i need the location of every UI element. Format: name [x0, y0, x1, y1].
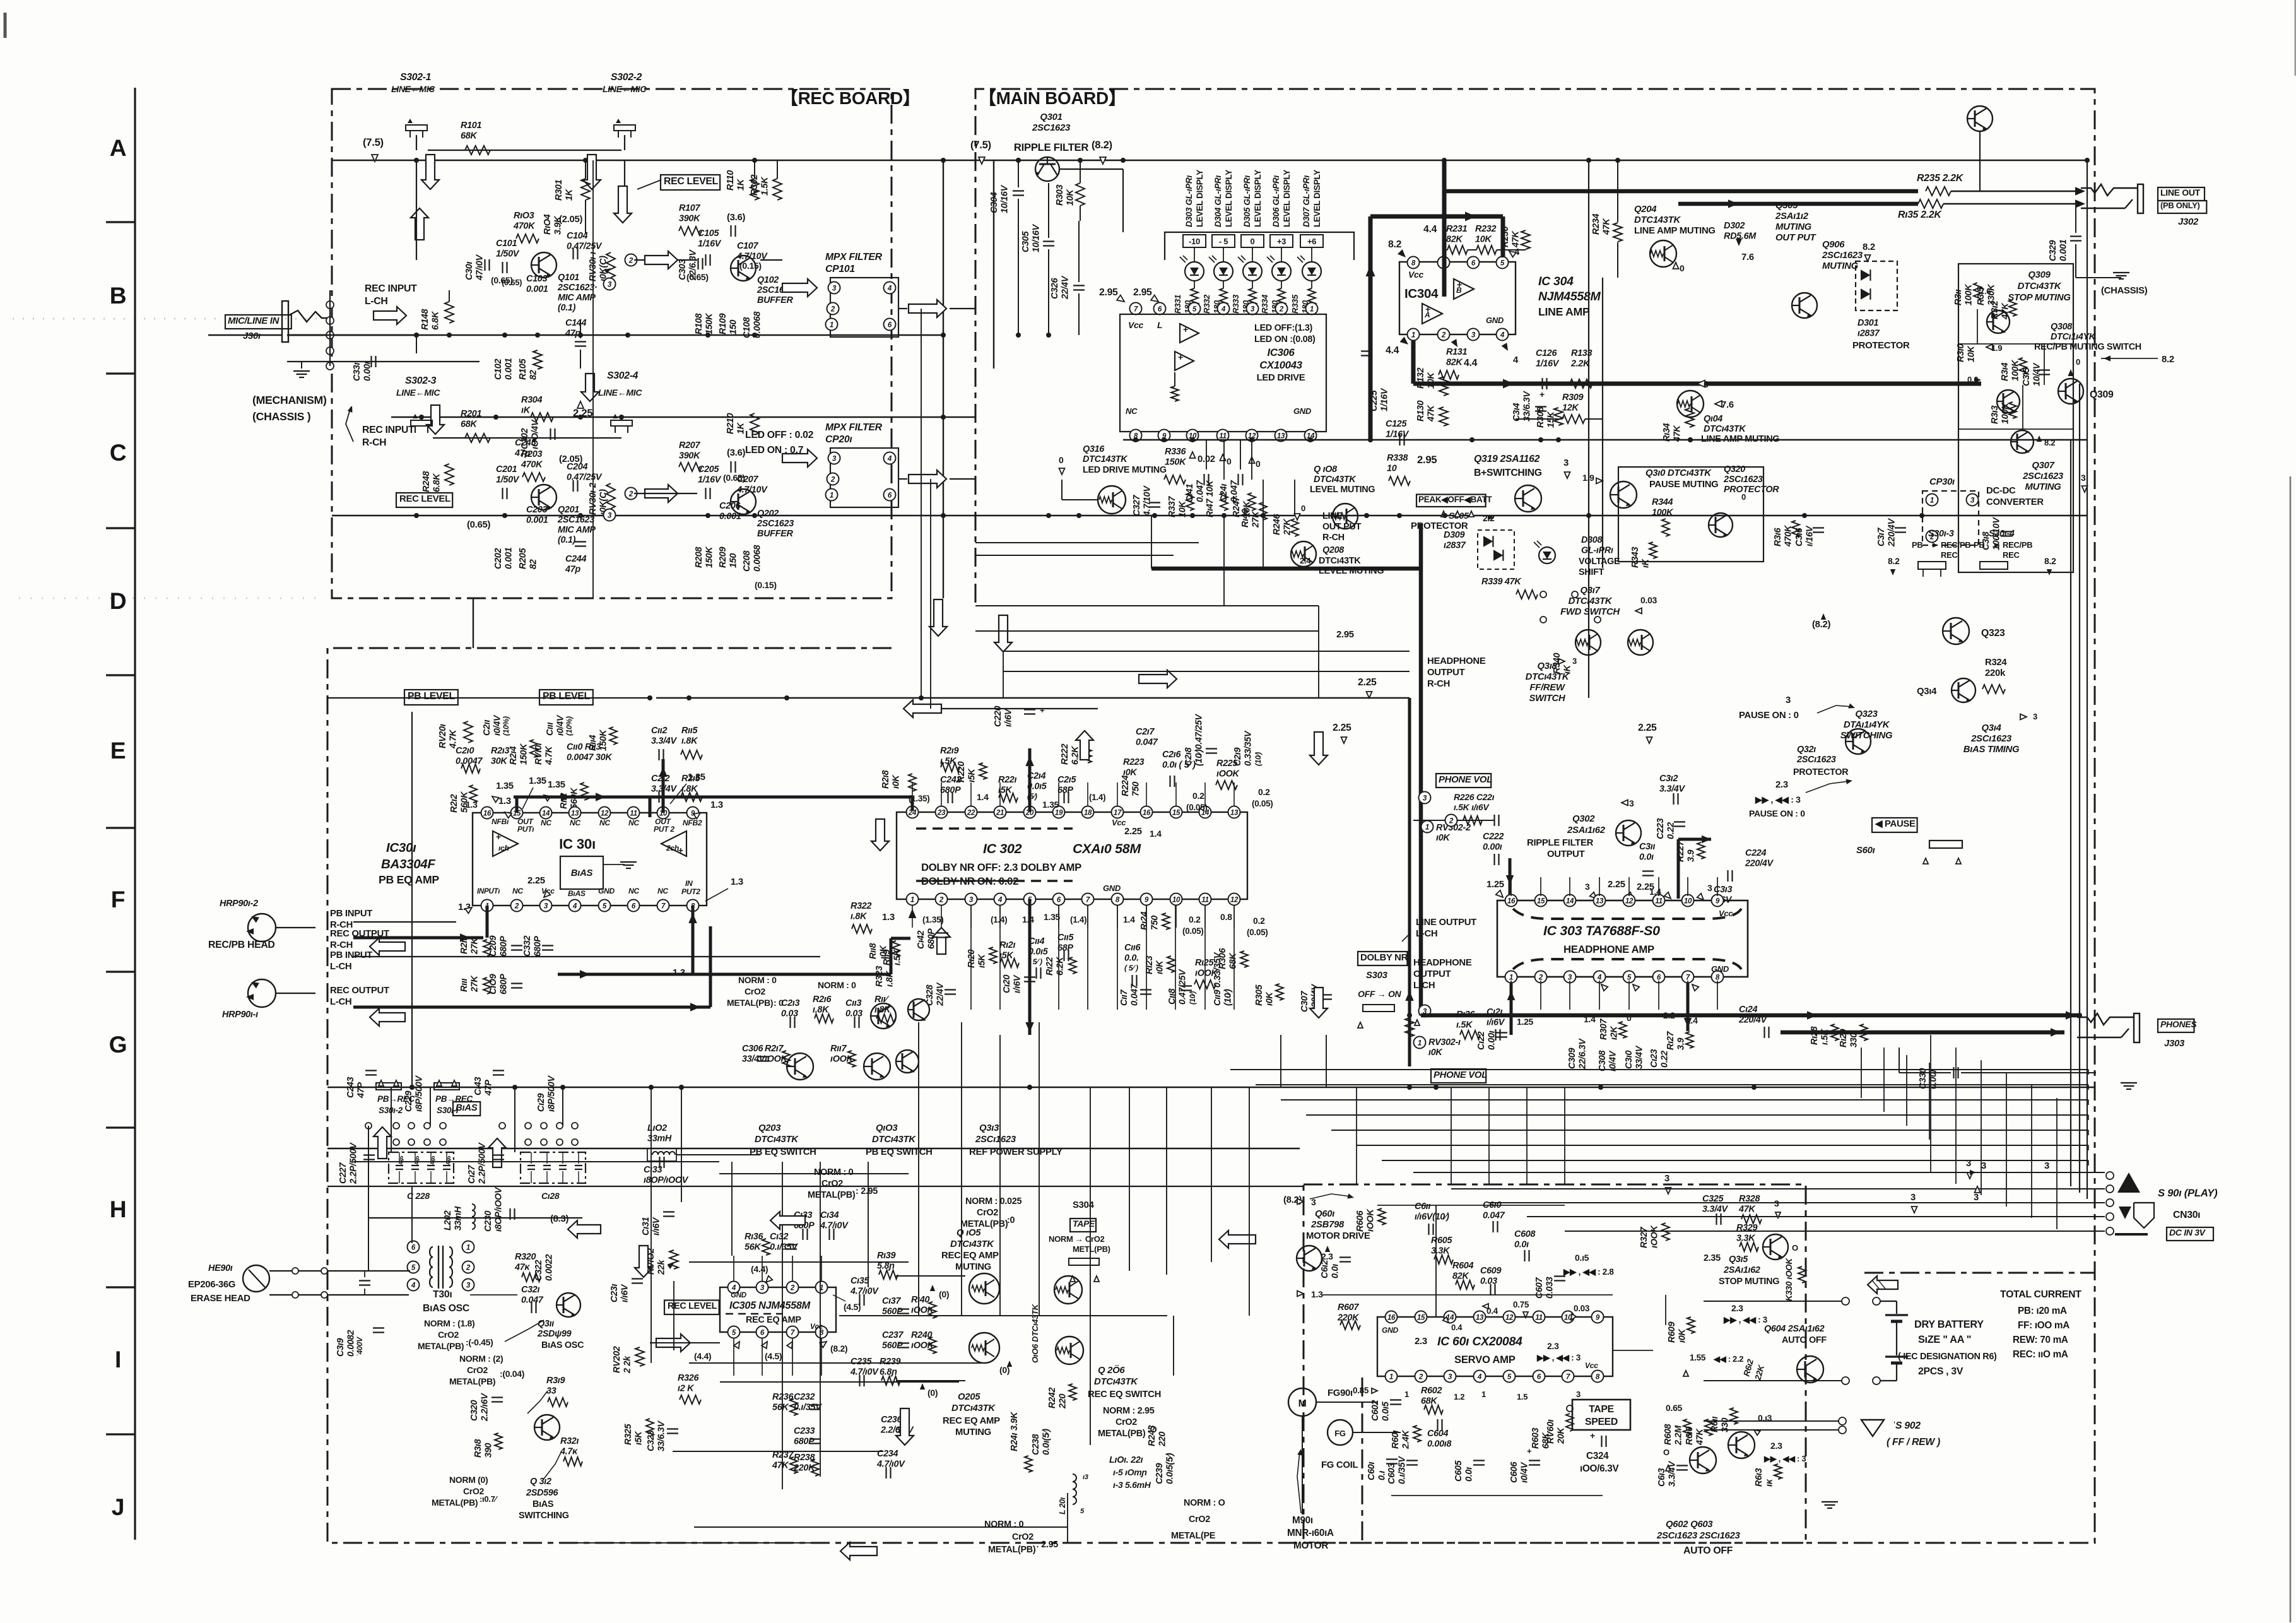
- svg-text:REC/PB: REC/PB: [1941, 540, 1970, 550]
- svg-text:15: 15: [1417, 1314, 1425, 1322]
- svg-text:Cı24: Cı24: [1739, 1005, 1757, 1015]
- svg-text:C234: C234: [877, 1449, 898, 1459]
- svg-text:LINE←MIC: LINE←MIC: [603, 84, 647, 94]
- svg-text:TOTAL CURRENT: TOTAL CURRENT: [2000, 1289, 2081, 1300]
- svg-text:C209: C209: [488, 936, 498, 957]
- block arrow mid rch: [645, 485, 678, 502]
- svg-text:BıAS TIMING: BıAS TIMING: [1963, 745, 2020, 755]
- transistor pb sw a: [787, 1053, 813, 1080]
- pause enclosure: [1618, 467, 1763, 562]
- svg-text:1.55: 1.55: [1690, 1353, 1706, 1362]
- svg-text:Q ıO5: Q ıO5: [957, 1228, 981, 1238]
- svg-text:R222: R222: [1060, 744, 1070, 765]
- svg-text:33/4V: 33/4V: [742, 1054, 766, 1065]
- wire d vert a: [1318, 606, 1319, 698]
- svg-text:0: 0: [1704, 380, 1709, 390]
- svg-text:ı/ı6V: ı/ı6V: [1487, 1018, 1505, 1028]
- svg-text:Rıı8: Rıı8: [868, 943, 878, 959]
- svg-text:NFB2: NFB2: [683, 818, 702, 827]
- svg-text:Q906: Q906: [1822, 240, 1845, 250]
- svg-text:2.25: 2.25: [1608, 880, 1625, 890]
- svg-text:3: 3: [1981, 1161, 1986, 1171]
- pin 7 vcc: [1130, 303, 1142, 315]
- svg-text::(0.04): :(0.04): [500, 1369, 524, 1379]
- svg-text::(-0.45): :(-0.45): [466, 1337, 493, 1347]
- row tick: [106, 1433, 135, 1435]
- svg-text:680P: 680P: [533, 936, 543, 957]
- svg-text:(7.5): (7.5): [363, 136, 384, 148]
- servo ic601 package: [1377, 1317, 1613, 1376]
- svg-text:NORM : 0: NORM : 0: [984, 1520, 1024, 1530]
- wire S302-4 line: [391, 416, 975, 418]
- svg-text:C330: C330: [1918, 1068, 1928, 1089]
- svg-text:6: 6: [411, 1244, 416, 1252]
- wire d vert c: [1003, 651, 1004, 698]
- svg-text:1/50V: 1/50V: [496, 475, 520, 485]
- svg-text:0.0ı5(5⁄): 0.0ı5(5⁄): [1165, 1453, 1175, 1484]
- svg-text:Vcc: Vcc: [810, 1323, 823, 1331]
- svg-text:C107: C107: [737, 241, 758, 251]
- svg-text:BıAS: BıAS: [533, 1499, 554, 1509]
- row tick: [106, 827, 135, 829]
- svg-text:Cı28: Cı28: [541, 1191, 560, 1201]
- svg-text:1/50V: 1/50V: [496, 249, 520, 259]
- thick wire pb in1: [353, 936, 483, 940]
- wire mpx drop 2: [930, 479, 931, 709]
- svg-text:13: 13: [1476, 1314, 1484, 1322]
- svg-text:PROTECTOR: PROTECTOR: [1793, 767, 1849, 777]
- svg-text:(10%): (10%): [565, 716, 574, 736]
- svg-text:2SCı1623: 2SCı1623: [1723, 475, 1763, 485]
- svg-text:2.3: 2.3: [1415, 1337, 1427, 1347]
- svg-text:R308: R308: [1536, 407, 1546, 428]
- block arrow bias up: [374, 1127, 391, 1159]
- svg-text:33/6.3V: 33/6.3V: [657, 1420, 667, 1451]
- svg-text:R320: R320: [515, 1252, 536, 1262]
- svg-text:REC: ııO mA: REC: ııO mA: [2013, 1349, 2068, 1360]
- wire horizontal: [719, 1173, 909, 1174]
- svg-text:R605: R605: [1431, 1236, 1452, 1246]
- svg-text:S60ı: S60ı: [1856, 846, 1875, 856]
- svg-text:D309: D309: [1444, 530, 1464, 540]
- wire d row h2: [975, 630, 1319, 632]
- svg-text:2SCı1623: 2SCı1623: [975, 1135, 1016, 1145]
- svg-text:PB EQ SWITCH: PB EQ SWITCH: [866, 1147, 933, 1157]
- svg-text:CP20ı: CP20ı: [825, 434, 852, 445]
- svg-text:R326: R326: [678, 1373, 699, 1383]
- svg-text:R203: R203: [521, 449, 542, 459]
- svg-text:2.4: 2.4: [1300, 556, 1311, 565]
- svg-text:2SC1623·: 2SC1623·: [557, 283, 597, 293]
- svg-text:Q3ı8: Q3ı8: [1537, 661, 1557, 671]
- svg-text:IC 302: IC 302: [983, 841, 1022, 856]
- wire rv to buffer: [634, 259, 697, 261]
- svg-text:(8.2): (8.2): [1812, 620, 1830, 630]
- page border artifacts: [4, 13, 7, 38]
- svg-text:C202: C202: [493, 548, 503, 569]
- svg-text:CrO2: CrO2: [467, 1365, 488, 1375]
- svg-text:2.2K: 2.2K: [1570, 359, 1591, 369]
- svg-text:(1.35): (1.35): [922, 915, 943, 924]
- wire horizontal: [568, 1542, 820, 1543]
- svg-text:- 5: - 5: [1219, 237, 1228, 246]
- MAIN BOARD outline: [327, 89, 2095, 1543]
- svg-text:C232: C232: [794, 1392, 815, 1402]
- svg-text:1: 1: [1411, 331, 1415, 339]
- svg-text:47P: 47P: [356, 1082, 367, 1099]
- stop muting enclosure: [1958, 264, 2073, 572]
- svg-text:R307: R307: [1599, 1018, 1609, 1040]
- wire d row verticals: [1223, 440, 1225, 480]
- svg-text:47K: 47K: [1695, 1428, 1705, 1446]
- svg-text:Rıı7: Rıı7: [830, 1044, 847, 1054]
- boxed label REC LEVEL 2: [396, 493, 452, 507]
- svg-text:1.5: 1.5: [1517, 1392, 1528, 1402]
- svg-text:11: 11: [1219, 432, 1226, 440]
- svg-text:REC LEVEL: REC LEVEL: [668, 1301, 717, 1311]
- wire horizontal: [673, 1451, 883, 1452]
- svg-text:CXAı0 58M: CXAı0 58M: [1073, 841, 1141, 856]
- svg-text:(8.2): (8.2): [830, 1343, 847, 1354]
- svg-text:BUFFER: BUFFER: [757, 295, 793, 305]
- svg-text:NORM : 0.025: NORM : 0.025: [965, 1196, 1021, 1207]
- svg-text:R2ı8: R2ı8: [881, 770, 891, 789]
- svg-text:R303: R303: [1055, 185, 1065, 206]
- block arrow down recboard 2: [994, 615, 1012, 652]
- svg-text:7: 7: [791, 1329, 795, 1337]
- svg-text:750: 750: [1131, 782, 1141, 796]
- svg-text:HRP90ı-ı: HRP90ı-ı: [222, 1010, 258, 1020]
- svg-text:R3ı8: R3ı8: [473, 1439, 483, 1458]
- svg-text:3: 3: [544, 902, 548, 911]
- svg-text:METAL(PB): METAL(PB): [988, 1545, 1036, 1555]
- svg-text:C327: C327: [1132, 495, 1142, 516]
- wires receq: [839, 1315, 1167, 1316]
- svg-text:D303 GL-ıPRı: D303 GL-ıPRı: [1184, 175, 1194, 227]
- svg-text:(CHASSIS ): (CHASSIS ): [252, 410, 311, 423]
- svg-text:C326: C326: [1050, 278, 1060, 299]
- junction dots: [414, 158, 419, 163]
- svg-text:9: 9: [1596, 1314, 1600, 1322]
- boxed PHONE VOL low: [1431, 1069, 1486, 1083]
- thick wire pb bus: [649, 797, 652, 817]
- svg-text:BA3304F: BA3304F: [381, 857, 435, 871]
- svg-text:22/4V: 22/4V: [1061, 275, 1071, 300]
- svg-text:ı0K(C): ı0K(C): [599, 256, 609, 281]
- svg-text:30K: 30K: [491, 757, 508, 767]
- svg-text:B: B: [110, 282, 127, 309]
- wire vertical: [1090, 1087, 1091, 1445]
- svg-text:0.ı: 0.ı: [1377, 1471, 1387, 1480]
- svg-text:HE90ı: HE90ı: [208, 1263, 233, 1273]
- svg-text:REC: REC: [1941, 550, 1958, 560]
- svg-text:ı0/4V: ı0/4V: [1520, 1461, 1530, 1483]
- svg-text:4: 4: [572, 902, 577, 911]
- svg-text:O205: O205: [958, 1392, 980, 1402]
- svg-text:R207: R207: [679, 440, 700, 451]
- thick wire phones upper: [1421, 1013, 2080, 1018]
- svg-text:C126: C126: [1536, 348, 1557, 358]
- block arrow down top: [583, 155, 601, 189]
- svg-text:EP206-36G: EP206-36G: [188, 1280, 235, 1290]
- svg-text:8.2: 8.2: [2162, 355, 2174, 365]
- svg-text:R325: R325: [623, 1424, 633, 1445]
- block arrow down left ic302: [871, 819, 889, 851]
- svg-text:DOLBY NR OFF: 2.3 DOLBY AM: DOLBY NR OFF: 2.3 DOLBY AMP: [921, 861, 1081, 873]
- svg-text:6: 6: [1657, 974, 1661, 982]
- svg-text:1: 1: [1404, 1390, 1409, 1399]
- svg-text:【REC BOARD】: 【REC BOARD】: [780, 88, 920, 108]
- svg-text:DTCı43TK: DTCı43TK: [1094, 1377, 1138, 1387]
- svg-text:1: 1: [1481, 1390, 1486, 1399]
- svg-text:0.47/25V: 0.47/25V: [567, 242, 603, 252]
- svg-text:LED OFF:(1.3): LED OFF:(1.3): [1254, 323, 1313, 333]
- svg-text:0: 0: [1251, 237, 1255, 246]
- svg-text:CrO2: CrO2: [1116, 1417, 1137, 1427]
- svg-text:2.2P/500V: 2.2P/500V: [478, 1142, 488, 1184]
- svg-text:L-CH: L-CH: [365, 296, 388, 307]
- svg-text:100K: 100K: [1652, 508, 1674, 518]
- svg-text:0.2: 0.2: [1192, 791, 1204, 801]
- svg-text:NC: NC: [570, 818, 580, 827]
- svg-text:NORM : O: NORM : O: [1184, 1498, 1225, 1508]
- svg-text:C233: C233: [794, 1426, 815, 1436]
- block arrow right mid: [645, 251, 678, 269]
- svg-text:C2ı3: C2ı3: [781, 998, 799, 1008]
- svg-text:Q319 2SA1162: Q319 2SA1162: [1474, 454, 1540, 464]
- transistor Q315 STOP MUTING: [1763, 1234, 1788, 1260]
- svg-text:L202: L202: [443, 1210, 453, 1231]
- svg-text:C230: C230: [483, 1211, 493, 1232]
- svg-text:2.2M: 2.2M: [1674, 1425, 1684, 1446]
- svg-text:(PB ONLY): (PB ONLY): [2160, 201, 2200, 210]
- svg-text:C329: C329: [2048, 240, 2058, 261]
- svg-text:15K: 15K: [1546, 411, 1557, 428]
- svg-text:390K: 390K: [679, 214, 701, 224]
- scan streak row B: [13, 318, 325, 320]
- row tick: [106, 372, 135, 374]
- svg-text:D307 GL-ıPRı: D307 GL-ıPRı: [1302, 175, 1311, 227]
- switch S901 PLAY: [2106, 1172, 2114, 1179]
- svg-text:C208: C208: [742, 551, 752, 572]
- boxed PHONE VOL up: [1436, 774, 1491, 788]
- svg-text:+: +: [1183, 324, 1188, 334]
- svg-text:1.3: 1.3: [710, 800, 723, 810]
- svg-text:Rı39: Rı39: [877, 1251, 895, 1261]
- svg-text:NORM : (2): NORM : (2): [459, 1354, 503, 1364]
- svg-text:PB: ı20 mA: PB: ı20 mA: [2018, 1306, 2067, 1316]
- svg-text:C302: C302: [520, 428, 530, 449]
- LED D303 GL-1PRI LEVEL DISPLY: [1183, 235, 1206, 247]
- svg-text:PB: PB: [1974, 540, 1984, 550]
- border notch: [1864, 1272, 2095, 1274]
- svg-text:ı/ı6V: ı/ı6V: [1004, 708, 1014, 727]
- svg-text::ı0.7⁄: :ı0.7⁄: [480, 1494, 498, 1504]
- svg-text:H: H: [110, 1196, 127, 1222]
- svg-text:CrO2: CrO2: [977, 1208, 998, 1218]
- svg-text:4: 4: [1500, 331, 1505, 339]
- svg-text:7.6: 7.6: [1980, 286, 1991, 296]
- svg-text:(0.1): (0.1): [558, 535, 576, 545]
- svg-text:4: 4: [998, 896, 1003, 904]
- svg-text:6.8K: 6.8K: [432, 473, 442, 492]
- svg-text:C60ı: C60ı: [1367, 1462, 1377, 1480]
- svg-text:L-CH: L-CH: [330, 962, 351, 972]
- block arrow down center: [581, 374, 599, 401]
- svg-text:Rı22: Rı22: [1045, 957, 1055, 976]
- svg-text:C243: C243: [346, 1077, 356, 1098]
- svg-text:10/16V: 10/16V: [1032, 223, 1042, 252]
- svg-text:LINE←MIC: LINE←MIC: [391, 84, 435, 94]
- svg-text:2.35: 2.35: [1704, 1253, 1721, 1263]
- ground right g: [2121, 1082, 2137, 1083]
- svg-text:CP101: CP101: [825, 264, 855, 274]
- wire vertical: [918, 1022, 919, 1316]
- svg-text:33mH: 33mH: [647, 1134, 672, 1144]
- svg-text:47K: 47K: [1511, 230, 1521, 248]
- svg-text:R301: R301: [554, 180, 564, 201]
- svg-text:C224: C224: [1745, 848, 1766, 858]
- svg-text:R231: R231: [1446, 224, 1467, 234]
- svg-text:LINE←MIC: LINE←MIC: [396, 387, 440, 398]
- op-amp IC302 package: [897, 812, 1247, 899]
- svg-text:+3: +3: [1277, 237, 1286, 246]
- svg-text:22/6.3V: 22/6.3V: [688, 249, 698, 281]
- svg-text:RV20ı: RV20ı: [438, 724, 448, 748]
- svg-text:PB LEVEL: PB LEVEL: [408, 691, 455, 702]
- svg-text:R223: R223: [1123, 757, 1144, 767]
- svg-text:8: 8: [1716, 974, 1720, 982]
- svg-text:5: 5: [1192, 305, 1197, 314]
- svg-text:LıOı. 22ı: LıOı. 22ı: [1109, 1455, 1143, 1465]
- svg-text:MUTING: MUTING: [1775, 222, 1812, 232]
- svg-text:ı/ı6V(10⁄): ı/ı6V(10⁄): [1415, 1212, 1449, 1222]
- svg-text:Rı24: Rı24: [1139, 912, 1150, 930]
- svg-text:RV202: RV202: [612, 1346, 622, 1373]
- label 0 lineout: [1697, 381, 1705, 387]
- svg-text:ı2 K: ı2 K: [678, 1384, 695, 1394]
- svg-text:(4.4): (4.4): [694, 1351, 711, 1361]
- svg-text:LINE OUTPUT: LINE OUTPUT: [1416, 918, 1476, 928]
- svg-text:(10⁄): (10⁄): [1223, 989, 1233, 1006]
- svg-text:C2ı9: C2ı9: [1233, 748, 1243, 766]
- svg-text:ı.5K: ı.5K: [1456, 1020, 1473, 1030]
- svg-text:VOLTAGE: VOLTAGE: [1579, 557, 1620, 567]
- block arrow rec input rch: [427, 405, 444, 434]
- svg-text:IC 304: IC 304: [1538, 274, 1574, 288]
- svg-text:Cı41: Cı41: [1185, 484, 1195, 502]
- svg-text:100K: 100K: [2001, 402, 2011, 424]
- svg-text:12: 12: [1505, 1314, 1514, 1322]
- svg-text:STOP MUTING: STOP MUTING: [2008, 293, 2071, 303]
- svg-text:C204: C204: [567, 462, 587, 472]
- svg-text:LED ON : 0.7: LED ON : 0.7: [745, 445, 804, 456]
- svg-text:DTCı43TK: DTCı43TK: [755, 1135, 799, 1145]
- svg-text:2: 2: [1418, 1373, 1423, 1381]
- svg-text:3: 3: [760, 1284, 765, 1292]
- svg-text:C227: C227: [338, 1162, 348, 1184]
- svg-text:R242: R242: [1047, 1388, 1057, 1408]
- diode D308 GL-1PRI VOLTAGE SHIFT: [1539, 547, 1555, 564]
- op-amp IC304 package: [1399, 262, 1516, 334]
- op-amp IC305 package: [720, 1287, 836, 1332]
- svg-text:47K: 47K: [1738, 1205, 1756, 1215]
- svg-text:0.ı5: 0.ı5: [1575, 1253, 1589, 1263]
- svg-text:PROTECTOR: PROTECTOR: [1724, 485, 1779, 495]
- jack J301 MIC/LINE IN: [225, 315, 291, 329]
- svg-text:R3ı3: R3ı3: [1990, 406, 2000, 424]
- svg-text:ıch: ıch: [498, 844, 509, 853]
- transistor Q202 2SC1623 BUFFER: [731, 489, 756, 514]
- svg-text:CP30ı: CP30ı: [1929, 477, 1955, 487]
- svg-text:0.047: 0.047: [521, 1295, 544, 1306]
- svg-text:3: 3: [1910, 1193, 1916, 1203]
- svg-text:150K: 150K: [1165, 457, 1187, 468]
- svg-text:【MAIN BOARD】: 【MAIN BOARD】: [979, 88, 1126, 108]
- svg-text:Rı35 2.2K: Rı35 2.2K: [1898, 210, 1942, 220]
- thick wire ic301 out1: [515, 797, 519, 813]
- thick rail headphone r: [1408, 698, 1411, 1066]
- svg-text:680P: 680P: [499, 936, 509, 957]
- wire vertical: [1326, 1035, 1327, 1087]
- transistor Q906: [1792, 293, 1817, 318]
- svg-text:0: 0: [1680, 263, 1685, 273]
- svg-text:GND: GND: [1382, 1326, 1399, 1335]
- svg-text:D305 GL-ıPRı: D305 GL-ıPRı: [1242, 175, 1252, 227]
- svg-text:3: 3: [1786, 695, 1791, 705]
- svg-text:C3ı6: C3ı6: [1794, 528, 1804, 546]
- left margin rule: [134, 88, 136, 1540]
- svg-text:470K: 470K: [513, 221, 536, 232]
- svg-text:0.2: 0.2: [1189, 914, 1201, 924]
- wire h bus 1: [327, 1186, 1304, 1187]
- svg-text:DTCı43TK: DTCı43TK: [1314, 475, 1357, 485]
- svg-text:BıAS OSC: BıAS OSC: [541, 1340, 584, 1350]
- svg-text:J30ı: J30ı: [243, 331, 261, 341]
- svg-text:C309: C309: [1567, 1048, 1577, 1069]
- svg-text:2SC1623: 2SC1623: [557, 515, 594, 525]
- svg-text:C: C: [110, 439, 127, 466]
- connector CN301 DC IN 3V: [2119, 1207, 2131, 1219]
- svg-text:R606: R606: [1355, 1210, 1365, 1232]
- svg-text:OUTPUT: OUTPUT: [1427, 668, 1465, 678]
- svg-text:3: 3: [1448, 1373, 1452, 1381]
- svg-text:BıAS OSC: BıAS OSC: [423, 1303, 469, 1314]
- block arrow into ic305: [656, 1334, 690, 1352]
- svg-text:5: 5: [1507, 1373, 1512, 1381]
- svg-text:150: 150: [729, 553, 739, 568]
- svg-text:LED OFF : 0.02: LED OFF : 0.02: [745, 430, 814, 440]
- svg-text:2.95: 2.95: [1099, 287, 1118, 298]
- boxed REC LEVEL eq: [664, 1301, 719, 1315]
- svg-text:DTCı43TK: DTCı43TK: [950, 1239, 994, 1249]
- block arrow right dolby: [1139, 670, 1177, 688]
- svg-text:2.95: 2.95: [1336, 630, 1354, 640]
- svg-text:Rı20: Rı20: [967, 950, 977, 968]
- svg-text:ı5K: ı5K: [967, 768, 977, 782]
- svg-text:QıO3: QıO3: [876, 1123, 898, 1133]
- transistor Q208 LEVEL MUTING: [1291, 541, 1316, 567]
- svg-text:C108: C108: [742, 317, 752, 338]
- svg-text:11: 11: [1655, 897, 1662, 906]
- thick wire ic301 in2: [692, 906, 695, 974]
- svg-text:220: 220: [1158, 1432, 1168, 1447]
- svg-text:2: 2: [514, 902, 519, 911]
- svg-text:+: +: [1178, 352, 1183, 362]
- svg-text:R324: R324: [1985, 658, 2007, 668]
- svg-text:R2ı7: R2ı7: [765, 1044, 784, 1054]
- svg-text:Qı04: Qı04: [1704, 414, 1722, 424]
